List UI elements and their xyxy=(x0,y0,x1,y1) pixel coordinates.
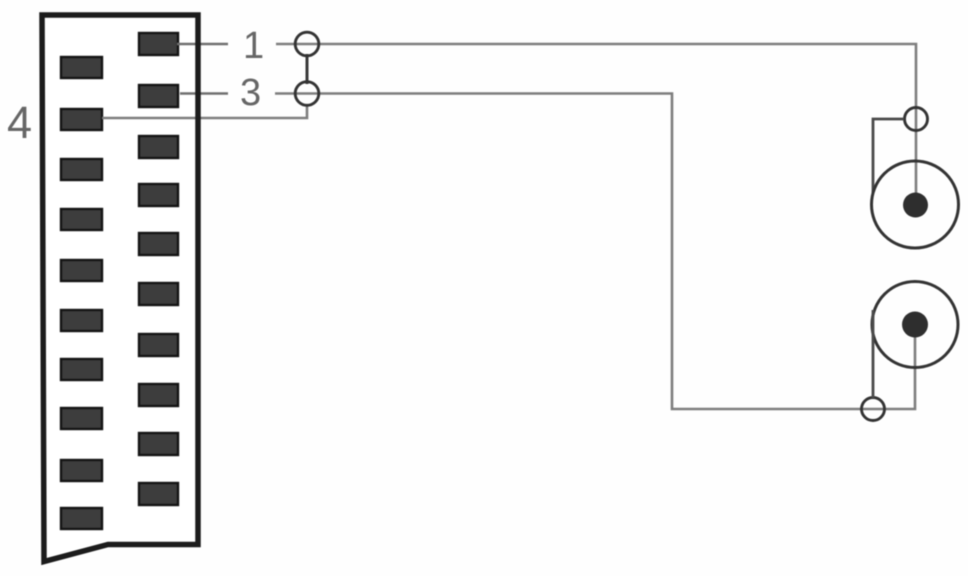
RCA plug 1 outer ring xyxy=(872,161,959,248)
node 2 (junction circle at label 3) xyxy=(295,82,319,106)
RCA plug 2 outer ring xyxy=(872,282,958,368)
pin 6 xyxy=(61,159,102,180)
RCA plug 2 center pin xyxy=(902,312,928,338)
wire pin4 to below node2 xyxy=(102,104,307,118)
pin 16 xyxy=(61,408,102,429)
node 3 (shield junction at RCA1) xyxy=(905,108,928,131)
wire label3 to node2 and down to RCA2 junction xyxy=(275,94,915,410)
pin 8 xyxy=(61,209,102,230)
svg-text:3: 3 xyxy=(240,72,261,114)
pin 17 xyxy=(139,433,178,455)
RCA plug 1 center pin xyxy=(903,193,928,218)
pin 19 xyxy=(139,483,178,505)
SCART connector body outline xyxy=(42,15,198,562)
pin 11 xyxy=(139,283,178,305)
pin 15 xyxy=(139,384,178,406)
wire shield bracket RCA1 xyxy=(873,119,904,193)
SCART connector body fill xyxy=(42,15,198,562)
node 1 (junction circle at label 1) xyxy=(295,32,319,56)
pin 5 xyxy=(139,136,178,158)
pin 14 xyxy=(61,359,102,380)
pin 10 xyxy=(61,260,102,281)
wire pin3 stub xyxy=(180,92,228,95)
pin 4 xyxy=(61,109,102,130)
pin 12 xyxy=(61,310,102,331)
pin 2 xyxy=(61,57,102,78)
pin 9 xyxy=(139,233,178,255)
pin 18 xyxy=(61,460,102,481)
svg-text:1: 1 xyxy=(243,25,264,67)
node 4 (shield junction at RCA2) xyxy=(862,398,885,421)
pin 7 xyxy=(139,184,178,206)
svg-text:4: 4 xyxy=(7,97,32,148)
pin 20 xyxy=(61,508,102,529)
wire pin1 stub xyxy=(177,43,228,46)
wire label1 to node1 and on to RCA1 corner xyxy=(276,44,916,199)
pin 3 xyxy=(139,85,178,107)
pin 13 xyxy=(139,334,178,356)
wire shield bracket RCA2 xyxy=(872,310,875,398)
wire link node1 to node2 xyxy=(306,54,309,84)
pin 1 xyxy=(139,33,178,55)
